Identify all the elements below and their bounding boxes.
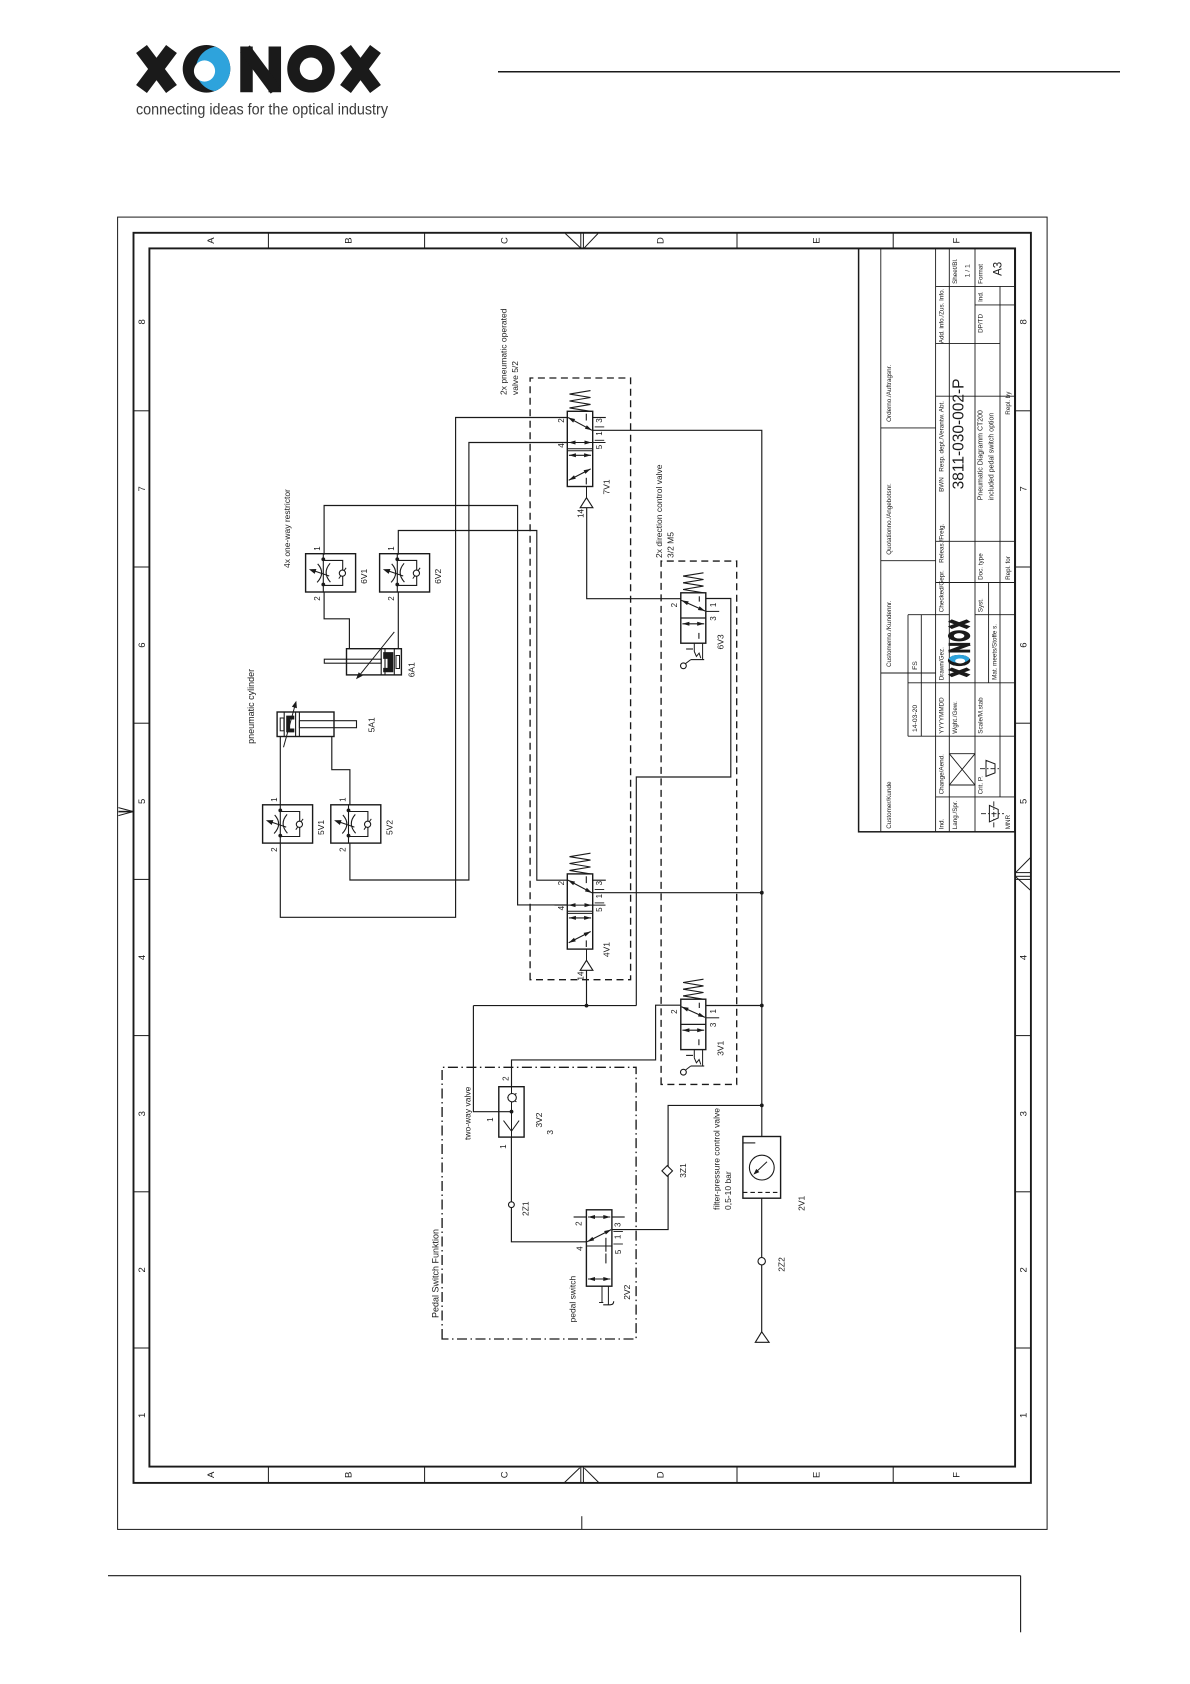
wire: 6V2 port2 to cylinder 6A1 rod side — [397, 592, 399, 649]
svg-text:1: 1 — [486, 1117, 495, 1122]
band row letters (left) — [206, 1471, 963, 1478]
svg-text:Ind.: Ind. — [939, 819, 946, 830]
svg-text:0,5-10 bar: 0,5-10 bar — [723, 1171, 733, 1210]
svg-text:2: 2 — [557, 418, 566, 423]
svg-text:4: 4 — [576, 1246, 585, 1251]
svg-text:A: A — [206, 237, 217, 244]
title block document title — [978, 410, 996, 500]
svg-text:3: 3 — [595, 418, 604, 423]
svg-text:3: 3 — [709, 1022, 718, 1027]
svg-text:5: 5 — [595, 444, 604, 449]
svg-text:1: 1 — [270, 797, 279, 802]
rotated A3 schematic sheet — [118, 233, 1031, 1530]
svg-text:A: A — [206, 1471, 217, 1478]
svg-text:2: 2 — [670, 1009, 679, 1014]
svg-text:C: C — [500, 237, 511, 244]
band column numbers (top) — [137, 319, 148, 1418]
wire: 4V1 port4 to 6V1 port1 — [324, 506, 567, 905]
svg-text:5: 5 — [614, 1249, 623, 1254]
svg-text:7: 7 — [1019, 486, 1030, 491]
svg-text:3: 3 — [613, 1222, 622, 1227]
svg-text:4: 4 — [1019, 955, 1030, 960]
svg-text:7: 7 — [137, 486, 148, 491]
svg-text:Pneumatic Diagramm CT200: Pneumatic Diagramm CT200 — [978, 410, 985, 500]
wire: 7V1 port3/port5 stubs — [593, 417, 606, 419]
svg-text:E: E — [811, 1472, 822, 1478]
small trapezoid symbol — [980, 760, 1000, 776]
svg-text:filter-pressure control valve: filter-pressure control valve — [712, 1108, 722, 1210]
one-way restrictor 5V2 — [331, 797, 395, 852]
svg-text:1: 1 — [709, 602, 718, 607]
pedal switch valve 2V2 — [568, 1210, 632, 1323]
svg-text:5: 5 — [1019, 799, 1030, 804]
svg-text:D: D — [655, 237, 666, 244]
footer box — [108, 1576, 1021, 1633]
one-way restrictor 6V1 — [306, 546, 370, 601]
svg-text:3: 3 — [709, 616, 718, 621]
svg-text:2: 2 — [670, 602, 679, 607]
wire: 4V1 port2 to 6V2 port1 — [398, 531, 567, 881]
svg-text:6V3: 6V3 — [716, 634, 726, 649]
svg-text:1: 1 — [499, 1144, 508, 1149]
svg-text:1: 1 — [137, 1413, 148, 1418]
svg-text:4: 4 — [557, 443, 566, 448]
svg-text:3811-030-002-P: 3811-030-002-P — [951, 378, 968, 489]
svg-text:B: B — [343, 1472, 354, 1478]
svg-text:8: 8 — [137, 319, 148, 324]
wire: 6V1 port2 to cylinder 6A1 — [324, 592, 349, 649]
svg-text:Wght./Gew.: Wght./Gew. — [952, 701, 959, 734]
svg-text:Checked/Gepr.: Checked/Gepr. — [939, 570, 946, 612]
svg-text:3Z1: 3Z1 — [678, 1163, 688, 1178]
svg-text:3: 3 — [1019, 1111, 1030, 1116]
svg-text:BWN: BWN — [939, 477, 946, 492]
svg-text:Add. info./Zus. Info.: Add. info./Zus. Info. — [939, 288, 946, 343]
band row letters (right) — [206, 237, 963, 244]
svg-text:F: F — [952, 238, 963, 244]
svg-text:included pedal switch option: included pedal switch option — [989, 413, 996, 501]
node 2Z1 — [509, 1201, 531, 1216]
svg-text:Format: Format — [978, 264, 985, 284]
wire: 2V2 port2/port3 exhaust stubs — [574, 1216, 625, 1218]
svg-text:E: E — [811, 237, 822, 243]
svg-text:2V1: 2V1 — [797, 1196, 807, 1211]
svg-text:1: 1 — [709, 1009, 718, 1014]
wire: junction to 2V1 inlet — [761, 1105, 763, 1136]
svg-text:Syst.: Syst. — [978, 598, 985, 612]
svg-text:2: 2 — [557, 880, 566, 885]
svg-text:5: 5 — [137, 799, 148, 804]
cylinder 5A1 — [277, 701, 376, 747]
svg-text:2x pneumatic operated: 2x pneumatic operated — [499, 308, 509, 395]
svg-text:1 / 1: 1 / 1 — [965, 264, 972, 277]
svg-text:2x direction control valve: 2x direction control valve — [654, 464, 664, 558]
projection method symbol — [981, 800, 1004, 828]
svg-text:4: 4 — [137, 955, 148, 960]
svg-text:8: 8 — [1019, 319, 1030, 324]
svg-text:Lang./Spr.: Lang./Spr. — [952, 800, 959, 829]
svg-text:1: 1 — [1019, 1413, 1030, 1418]
svg-text:6: 6 — [137, 642, 148, 647]
wire: supply branch to 3Z1 and 2V2 port1 — [612, 1105, 762, 1229]
wire: 3V1 port2 to 3V2 port2 — [512, 1005, 681, 1086]
svg-text:6: 6 — [1019, 642, 1030, 647]
svg-text:2: 2 — [502, 1076, 511, 1081]
svg-text:Drawn/Gez.: Drawn/Gez. — [939, 647, 946, 680]
svg-text:2: 2 — [313, 596, 322, 601]
svg-text:1: 1 — [313, 546, 322, 551]
svg-text:14: 14 — [577, 508, 586, 517]
5/2 valve 7V1 — [555, 391, 612, 518]
svg-text:Ind.: Ind. — [978, 291, 985, 302]
svg-text:2: 2 — [137, 1267, 148, 1272]
svg-text:1: 1 — [338, 797, 347, 802]
node 2Z2 — [758, 1257, 786, 1272]
svg-text:3V1: 3V1 — [716, 1041, 726, 1056]
svg-text:1: 1 — [595, 431, 604, 436]
svg-text:2: 2 — [575, 1221, 584, 1226]
svg-text:2: 2 — [338, 847, 347, 852]
svg-text:Sheet/Bl.: Sheet/Bl. — [952, 258, 959, 284]
svg-text:Doc. type: Doc. type — [978, 553, 985, 580]
svg-text:1: 1 — [387, 546, 396, 551]
svg-text:3V2: 3V2 — [534, 1112, 544, 1127]
svg-text:Quotationno./Angebotsnr.: Quotationno./Angebotsnr. — [886, 483, 893, 555]
svg-text:Releas./Freig.: Releas./Freig. — [939, 523, 946, 562]
cylinder 6A1 — [324, 632, 416, 679]
top rule — [498, 71, 1120, 73]
3/2 valve 6V3 — [670, 573, 726, 669]
svg-text:Orderno./Auftragsnr.: Orderno./Auftragsnr. — [886, 365, 893, 422]
wire: pilot network 4V1.14 / 3V2.1 / 6V3.3 — [473, 599, 730, 1112]
wire: 5V2 port1 to cylinder 5A1 rod side — [332, 737, 350, 806]
svg-text:6V1: 6V1 — [359, 569, 369, 584]
svg-text:Mat. meets/Stoffe s.: Mat. meets/Stoffe s. — [991, 624, 998, 680]
svg-text:3: 3 — [545, 1130, 555, 1135]
svg-text:pneumatic cylinder: pneumatic cylinder — [246, 669, 256, 744]
title block labels — [886, 258, 1012, 829]
svg-text:2: 2 — [270, 847, 279, 852]
svg-text:1: 1 — [614, 1234, 623, 1239]
svg-text:3/2 M5: 3/2 M5 — [666, 532, 676, 558]
node 3Z1 — [662, 1163, 688, 1178]
svg-text:Repl. for: Repl. for — [1005, 556, 1012, 580]
svg-text:2: 2 — [387, 596, 396, 601]
outer margin box — [118, 217, 1048, 1529]
5/2 valve 4V1 — [555, 853, 612, 980]
svg-text:14-03-20: 14-03-20 — [912, 705, 919, 732]
svg-text:Customerno./Kundennr.: Customerno./Kundennr. — [886, 600, 893, 667]
XONOX logo — [136, 45, 388, 119]
svg-text:4x one-way restrictor: 4x one-way restrictor — [282, 489, 292, 568]
svg-text:FS: FS — [912, 661, 919, 670]
svg-text:two-way valve: two-way valve — [463, 1086, 473, 1140]
svg-text:Scale/M.stab: Scale/M.stab — [978, 697, 985, 734]
wire: supply rail from 7V1 port1 — [593, 430, 764, 1107]
wire: 4V1 port3/port5 stubs — [593, 879, 606, 881]
svg-text:4V1: 4V1 — [602, 942, 612, 957]
svg-text:4: 4 — [557, 905, 566, 910]
svg-text:5: 5 — [595, 907, 604, 912]
wire: 7V1 port4 to 5V2 port2 — [350, 443, 567, 881]
one-way restrictor 6V2 — [380, 546, 444, 601]
svg-text:5V2: 5V2 — [384, 820, 394, 835]
svg-text:2Z2: 2Z2 — [776, 1257, 786, 1272]
svg-text:YYYYMMDD: YYYYMMDD — [939, 697, 946, 734]
svg-text:A3: A3 — [993, 262, 1005, 276]
svg-text:B: B — [343, 237, 354, 243]
svg-text:Crit. P.: Crit. P. — [978, 776, 985, 795]
svg-text:14: 14 — [577, 971, 586, 980]
svg-text:pedal switch: pedal switch — [568, 1275, 578, 1322]
svg-text:valve 5/2: valve 5/2 — [510, 361, 520, 395]
svg-text:Resp. dept./Verantw. Abt.: Resp. dept./Verantw. Abt. — [939, 401, 946, 472]
svg-text:1: 1 — [595, 893, 604, 898]
svg-text:Pedal Switch Funktion: Pedal Switch Funktion — [431, 1229, 441, 1318]
svg-text:Change/Aend.: Change/Aend. — [939, 754, 946, 795]
svg-text:MNR: MNR — [1005, 815, 1012, 830]
svg-text:2Z1: 2Z1 — [520, 1201, 530, 1216]
exhaust triangle at 2Z2 — [755, 1332, 769, 1343]
svg-text:Repl. by: Repl. by — [1005, 391, 1012, 415]
svg-text:2: 2 — [1019, 1267, 1030, 1272]
svg-text:7V1: 7V1 — [602, 479, 612, 494]
title block change X cell — [949, 754, 975, 785]
svg-text:6A1: 6A1 — [407, 662, 417, 677]
3/2 valve 3V1 — [670, 979, 726, 1075]
dash-dot box: Pedal Switch Funktion — [431, 1067, 637, 1339]
title block — [859, 248, 1015, 831]
svg-text:DP/TD: DP/TD — [978, 314, 985, 333]
one-way restrictor 5V1 — [263, 797, 327, 852]
two-way valve 3V2 — [463, 1076, 556, 1149]
wire: 2V1 outlet via 2Z2 to exhaust — [761, 1198, 763, 1332]
sheet frame with reference band — [134, 233, 1031, 1483]
svg-text:6V2: 6V2 — [433, 569, 443, 584]
svg-text:connecting ideas for the optic: connecting ideas for the optical industr… — [136, 102, 388, 119]
svg-text:3: 3 — [137, 1111, 148, 1116]
band column numbers (bottom) — [1019, 319, 1030, 1418]
svg-text:5V1: 5V1 — [316, 820, 326, 835]
svg-text:5A1: 5A1 — [367, 717, 377, 732]
svg-text:Customer/Kunde: Customer/Kunde — [886, 781, 893, 829]
svg-text:F: F — [952, 1472, 963, 1478]
dashed box: 2x pneumatic operated valve 5/2 — [499, 308, 631, 979]
wire: 6V3 port2 to 7V1 pilot 14 — [587, 508, 681, 599]
wire: 5V1 port1 to cylinder 5A1 — [279, 737, 281, 805]
wire: 2V2 port4 via 2Z1 to 3V2 — [511, 1137, 586, 1242]
svg-text:D: D — [655, 1471, 666, 1478]
svg-text:2V2: 2V2 — [622, 1284, 632, 1299]
filter-pressure control valve 2V1 — [712, 1108, 807, 1211]
wire: 7V1 port2 to 5V1 port2 — [280, 418, 567, 918]
title block XONOX logo — [948, 621, 970, 676]
margin centering marks — [118, 233, 1030, 1530]
svg-text:3: 3 — [595, 880, 604, 885]
dashed box: 2x direction control valve 3/2 M5 — [654, 464, 737, 1084]
svg-text:C: C — [500, 1471, 511, 1478]
